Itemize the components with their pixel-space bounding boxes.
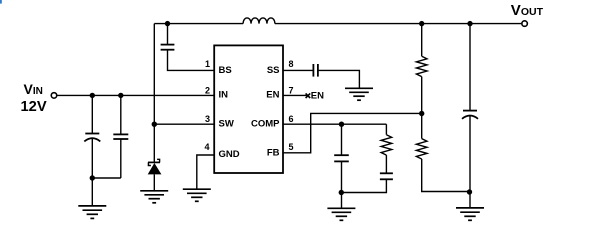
resistor R2 zigzag [416, 139, 427, 159]
node EN no-connect X [306, 93, 311, 98]
svg-text:8: 8 [289, 59, 294, 69]
node junction dot COMP [339, 122, 344, 127]
wire FB pin 5 routing [283, 113, 422, 152]
resistor R1 zigzag [416, 56, 427, 76]
ground IC G3 [183, 189, 211, 201]
capacitor CSS plates [313, 64, 318, 77]
resistor Rcomp top lead [385, 124, 387, 135]
svg-text:COMP: COMP [251, 119, 280, 130]
svg-text:7: 7 [289, 86, 294, 96]
screen artifact blue mark top-left [0, 0, 2, 4]
resistor Rcomp zigzag [381, 135, 392, 155]
svg-text:SS: SS [267, 65, 280, 76]
wire SW node vertical [153, 24, 155, 162]
capacitor C2 bottom lead [120, 139, 122, 178]
wire COMP pin 6 line [283, 123, 386, 125]
wire R2 bottom to output ground node [422, 159, 470, 192]
svg-text:2: 2 [205, 86, 210, 96]
svg-text:VOUT: VOUT [511, 2, 544, 19]
wire GND pin 4 stub [197, 155, 214, 189]
svg-text:3: 3 [205, 114, 210, 124]
node VOUT terminal [522, 21, 528, 27]
wire input rail [57, 94, 214, 96]
node junction dot output cap top [467, 21, 472, 26]
capacitor Ccomp1 bottom lead [341, 161, 343, 208]
svg-text:BS: BS [219, 65, 232, 76]
diode D1 schottky: cathode bar with hooks [148, 161, 160, 163]
node junction dot input cap C1 [90, 93, 95, 98]
wire caps bottom link [92, 177, 121, 179]
node junction dot input cap C2 [118, 93, 123, 98]
node junction dot comp bottom [339, 190, 344, 195]
svg-text:EN: EN [311, 91, 324, 102]
diode D1 triangle [148, 163, 162, 174]
capacitor C2 input: top lead [120, 95, 122, 134]
svg-text:GND: GND [219, 149, 240, 160]
wire comp network bottom [341, 179, 386, 192]
svg-text:6: 6 [289, 114, 294, 124]
svg-text:EN: EN [266, 89, 279, 100]
svg-text:12V: 12V [21, 99, 47, 115]
node VIN terminal [51, 93, 57, 99]
node junction dot FB divider [419, 111, 424, 116]
capacitor Ccomp1 plates [334, 155, 349, 161]
capacitor C1 bottom lead [91, 139, 93, 206]
resistor R1 top lead [421, 24, 423, 57]
wire top rail right (inductor to VOUT) [275, 23, 521, 25]
capacitor Cout bottom lead [469, 116, 471, 208]
wire CSS to ground [318, 70, 360, 88]
wire CBS to BS pin 1 [168, 50, 215, 71]
capacitor C1 polarized input: top lead [91, 95, 93, 133]
wire top rail left (SW node to inductor) [154, 23, 243, 25]
node junction dot BS-cap tap on SW rail [165, 21, 170, 26]
capacitor C1 plates [84, 134, 100, 142]
capacitor Cout plates [462, 111, 478, 119]
node junction dot caps bottom [90, 175, 95, 180]
node junction dot output bottom [467, 189, 472, 194]
op-amp U1 IC box [214, 45, 283, 173]
wire R1 to FB node [421, 77, 423, 139]
capacitor Ccomp2 top lead [385, 155, 387, 173]
capacitor C2 plates [113, 134, 128, 139]
inductor L1 [243, 18, 275, 24]
diode D1 bottom lead [153, 174, 155, 190]
svg-text:5: 5 [289, 142, 294, 152]
node junction dot SW pin [152, 122, 157, 127]
ground SS G4 [345, 88, 373, 100]
capacitor bootstrap CBS top lead [167, 24, 169, 45]
svg-text:FB: FB [267, 148, 280, 159]
capacitor Cout top lead [469, 24, 471, 111]
svg-text:IN: IN [219, 89, 229, 100]
ground comp G5 [327, 208, 355, 220]
capacitor bootstrap CBS plates [161, 45, 175, 50]
capacitor Ccomp1 top lead [341, 124, 343, 155]
svg-text:4: 4 [204, 142, 209, 152]
wire SW pin 3 stub [154, 123, 214, 125]
ground diode G2 [140, 191, 168, 203]
svg-text:VIN: VIN [24, 81, 43, 97]
svg-text:SW: SW [219, 119, 234, 130]
ground input G1 [78, 206, 106, 219]
wire SS pin 8 stub [283, 69, 313, 71]
ground output G6 [456, 208, 484, 220]
svg-text:1: 1 [205, 59, 210, 69]
wire EN pin 7 stub [283, 94, 308, 96]
capacitor Ccomp2 plates [380, 173, 393, 179]
node junction dot divider top [419, 21, 424, 26]
